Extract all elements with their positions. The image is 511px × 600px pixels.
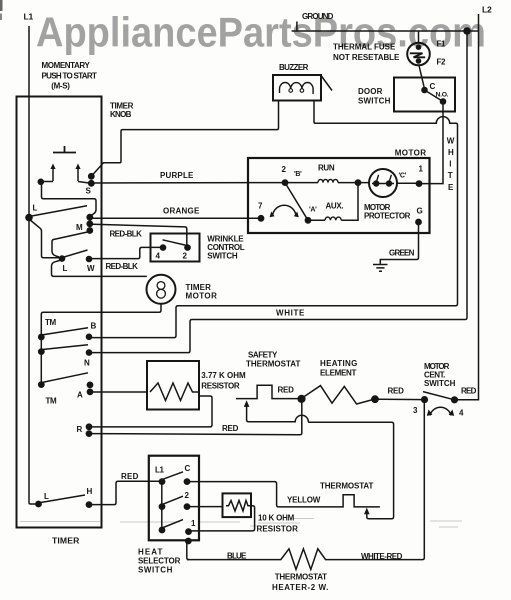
wire red-blk W to wrinkle switch 4 xyxy=(89,247,163,271)
svg-text:L: L xyxy=(63,264,68,273)
wire door switch to motor pin 1 xyxy=(421,104,443,184)
safety thermostat xyxy=(236,351,394,519)
terminal R xyxy=(77,423,93,437)
wire neutral: terminal N to ground junction xyxy=(89,31,467,353)
motor pin 7 xyxy=(258,202,265,222)
momentary push-to-start switch xyxy=(38,61,97,185)
node GROUND xyxy=(297,12,334,31)
svg-text:R: R xyxy=(77,425,83,434)
svg-text:B: B xyxy=(91,322,97,331)
svg-text:THERMAL FUSE: THERMAL FUSE xyxy=(333,43,396,52)
timer L H contacts xyxy=(35,487,92,508)
heating element xyxy=(278,359,405,404)
svg-text:RED-BLK: RED-BLK xyxy=(110,230,143,239)
svg-text:G: G xyxy=(417,207,423,216)
resistor 10 K OHM xyxy=(223,493,299,533)
timer motor xyxy=(147,275,218,304)
svg-text:A: A xyxy=(77,391,83,400)
svg-text:GREEN: GREEN xyxy=(389,249,415,258)
wire ground bus xyxy=(292,30,479,32)
svg-text:DOOR: DOOR xyxy=(358,87,383,96)
motor protector xyxy=(364,169,411,221)
svg-text:'A': 'A' xyxy=(309,207,317,214)
svg-text:NOT RESETABLE: NOT RESETABLE xyxy=(333,53,400,62)
svg-text:RED: RED xyxy=(278,386,295,395)
svg-text:RED: RED xyxy=(461,387,477,396)
motor pin 1 xyxy=(397,165,424,188)
svg-text:W: W xyxy=(447,137,455,146)
svg-text:RESISTOR: RESISTOR xyxy=(201,382,240,391)
wire push contact to M xyxy=(42,182,97,216)
wire red H to heat selector L1 xyxy=(89,472,162,505)
svg-text:3.77 K OHM: 3.77 K OHM xyxy=(201,371,246,380)
svg-text:SWITCH: SWITCH xyxy=(207,252,238,261)
svg-text:W: W xyxy=(87,264,95,273)
svg-text:MOTOR: MOTOR xyxy=(395,149,427,158)
run winding xyxy=(285,164,369,183)
svg-text:TM: TM xyxy=(46,397,58,406)
node L on L1 xyxy=(25,204,87,258)
wire buzzer left to S contact xyxy=(91,101,278,177)
svg-text:SWITCH: SWITCH xyxy=(424,379,456,388)
svg-text:RUN: RUN xyxy=(318,164,335,173)
svg-text:SWITCH: SWITCH xyxy=(138,566,173,575)
wire red R to heating element junction xyxy=(92,424,300,435)
svg-text:L: L xyxy=(33,204,38,213)
svg-text:RED: RED xyxy=(222,424,239,433)
svg-text:PROTECTOR: PROTECTOR xyxy=(364,212,411,221)
svg-text:ELEMENT: ELEMENT xyxy=(320,369,356,378)
wire L2 line xyxy=(455,5,492,400)
svg-text:C: C xyxy=(430,82,436,91)
wire orange xyxy=(90,207,261,219)
timer box xyxy=(17,97,102,546)
svg-text:BUZZER: BUZZER xyxy=(279,63,309,72)
door switch xyxy=(358,78,455,112)
wrinkle control switch xyxy=(151,234,245,262)
wire pin3 down to white-red xyxy=(328,403,424,560)
terminal A and wire to resistor xyxy=(77,382,147,400)
wire heat selector 1 down to blue xyxy=(187,541,189,560)
svg-text:RED: RED xyxy=(121,472,139,481)
svg-text:SAFETY: SAFETY xyxy=(248,351,278,360)
wire motor cent 4 to L2 drawn with L2 xyxy=(458,399,479,401)
svg-text:KNOB: KNOB xyxy=(110,110,132,119)
motor pin 2 xyxy=(282,165,303,186)
svg-text:WHITE-RED: WHITE-RED xyxy=(361,552,403,561)
svg-text:SWITCH: SWITCH xyxy=(358,97,391,106)
svg-text:'B': 'B' xyxy=(294,171,302,178)
wire heat selector C to thermostat yellow xyxy=(187,482,380,507)
wire white to terminal B xyxy=(91,306,305,338)
svg-text:PURPLE: PURPLE xyxy=(160,171,194,180)
svg-text:ORANGE: ORANGE xyxy=(163,207,200,216)
svg-text:N.O.: N.O. xyxy=(436,92,449,99)
svg-text:L2: L2 xyxy=(482,5,492,15)
wire timer motor to TM contacts xyxy=(41,304,161,337)
svg-text:TIMER: TIMER xyxy=(52,536,80,546)
svg-text:RED-BLK: RED-BLK xyxy=(106,262,139,271)
svg-text:AUX.: AUX. xyxy=(326,202,344,211)
wire 10K resistor return to 1 xyxy=(190,506,255,531)
svg-text:L1: L1 xyxy=(155,466,165,475)
svg-text:L: L xyxy=(44,492,49,501)
svg-text:HEATING: HEATING xyxy=(320,359,357,368)
terminal M xyxy=(76,214,93,234)
svg-text:'C': 'C' xyxy=(399,173,407,180)
svg-text:HEATER-2 W.: HEATER-2 W. xyxy=(272,583,328,592)
terminal N xyxy=(84,349,92,367)
svg-text:C: C xyxy=(185,464,191,473)
junction dot ground/L2 xyxy=(463,27,471,35)
terminal B xyxy=(86,322,97,341)
svg-text:M: M xyxy=(76,223,83,232)
svg-text:PUSH TO START: PUSH TO START xyxy=(42,72,97,81)
svg-text:10 K OHM: 10 K OHM xyxy=(258,514,295,523)
junction dot run/aux xyxy=(355,179,362,186)
wire red-blk M to wrinkle switch 2 xyxy=(93,224,187,245)
wire resistor to terminal R xyxy=(92,396,212,427)
buzzer xyxy=(273,63,332,101)
svg-text:RED: RED xyxy=(388,387,405,396)
terminal S xyxy=(86,173,95,196)
svg-text:T: T xyxy=(448,171,453,180)
thermal fuse F1 F2 xyxy=(333,31,446,88)
svg-text:N: N xyxy=(84,359,90,368)
resistor 3.77 K OHM xyxy=(147,361,246,410)
thermostat heater 2W xyxy=(187,549,328,592)
wire heat selector 2 to 10K resistor xyxy=(187,506,223,508)
heat selector switch xyxy=(138,456,199,575)
svg-text:MOTOR: MOTOR xyxy=(186,292,218,301)
motor box xyxy=(248,149,430,234)
svg-text:THERMOSTAT: THERMOSTAT xyxy=(275,573,327,582)
svg-text:TM: TM xyxy=(45,318,57,327)
svg-text:L1: L1 xyxy=(24,12,34,22)
svg-text:THERMOSTAT: THERMOSTAT xyxy=(246,360,300,369)
svg-text:I: I xyxy=(449,160,451,169)
svg-text:F1: F1 xyxy=(437,40,447,49)
node heating element left junction xyxy=(297,395,305,435)
label timer knob xyxy=(110,102,134,120)
terminals L and W of wrinkle row xyxy=(59,250,95,273)
svg-text:THERMOSTAT: THERMOSTAT xyxy=(320,482,373,491)
svg-text:F2: F2 xyxy=(437,58,447,67)
motor centrifugal switch xyxy=(413,362,477,418)
svg-text:YELLOW: YELLOW xyxy=(287,496,321,505)
svg-text:MOMENTARY: MOMENTARY xyxy=(42,61,91,70)
svg-text:GROUND: GROUND xyxy=(302,12,334,21)
svg-text:(M-S): (M-S) xyxy=(51,82,70,91)
svg-text:H: H xyxy=(448,148,454,157)
svg-text:H: H xyxy=(87,487,93,496)
wire element to motor cent switch 3 xyxy=(375,398,425,400)
svg-text:RESISTOR: RESISTOR xyxy=(257,525,299,534)
motor terminal G xyxy=(415,207,422,226)
svg-text:WHITE: WHITE xyxy=(276,309,305,318)
wire L1 line xyxy=(24,12,37,505)
wire M3 through L to timer motor xyxy=(52,232,147,277)
wire white: buzzer right down right side xyxy=(178,101,458,306)
svg-text:SELECTOR: SELECTOR xyxy=(138,557,181,566)
aux winding and contact A xyxy=(270,183,358,224)
wire green and chassis ground xyxy=(373,225,419,271)
TM cam contacts xyxy=(38,318,88,406)
svg-text:BLUE: BLUE xyxy=(227,552,247,561)
wire purple xyxy=(91,171,285,183)
